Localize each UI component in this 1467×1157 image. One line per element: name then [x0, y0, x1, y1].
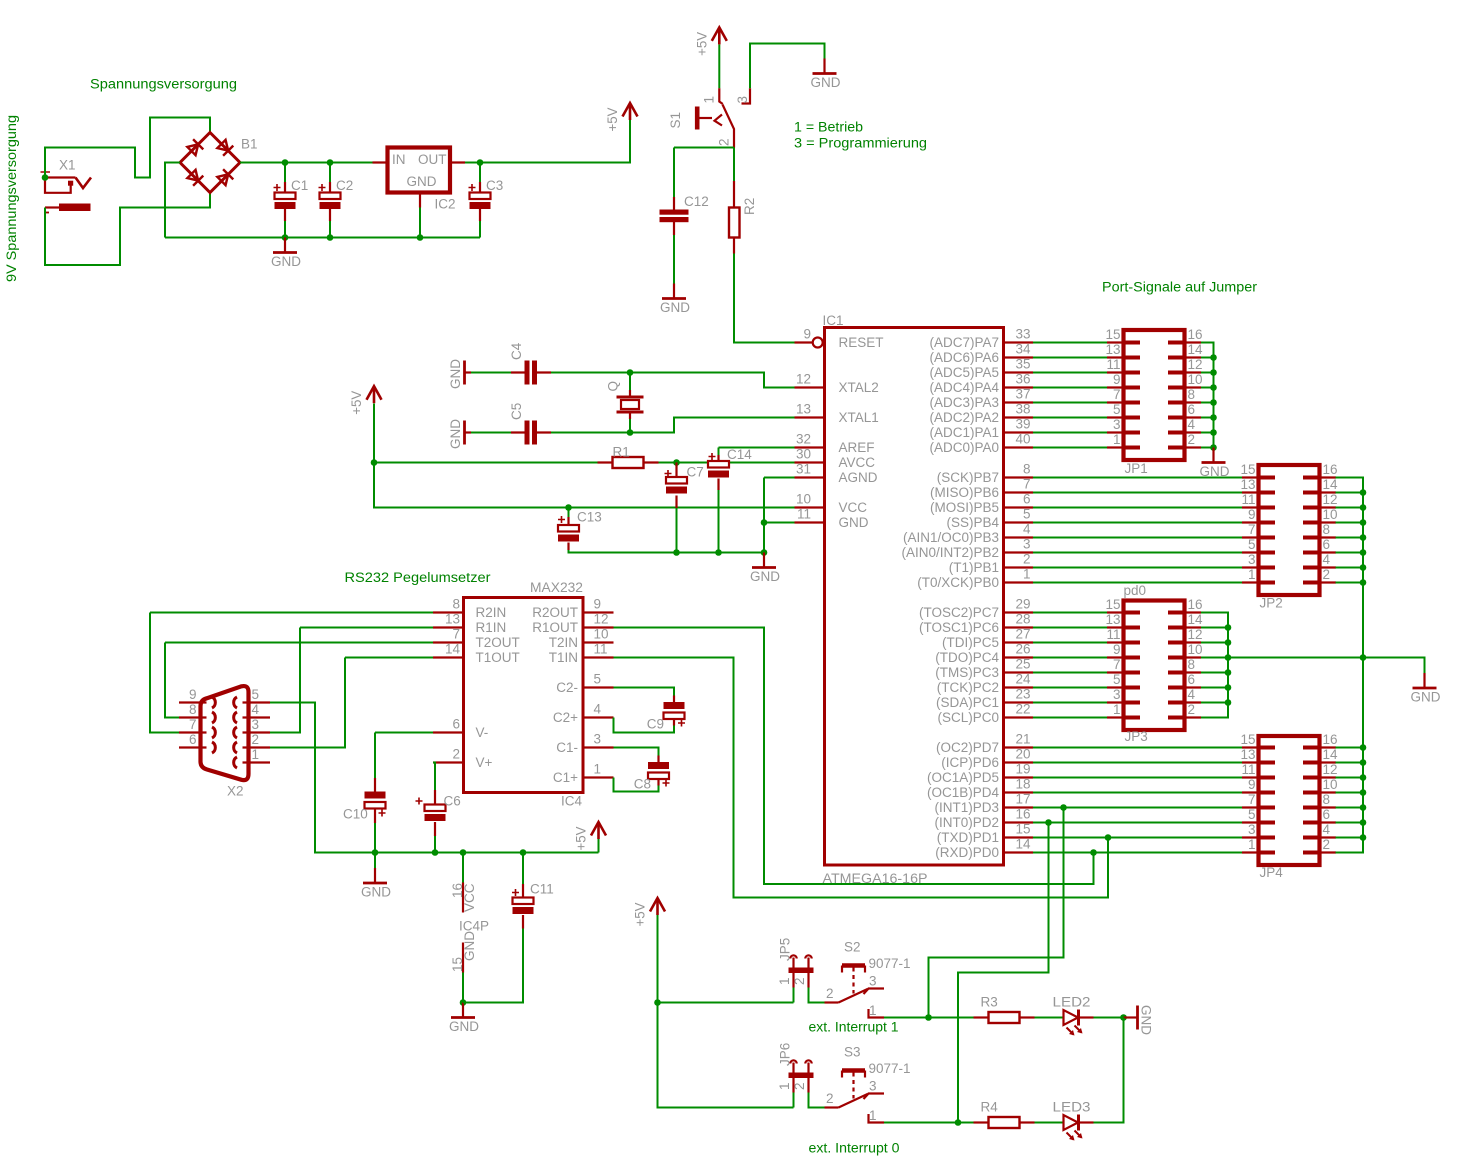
wire PD row y=852.5 to JP4 [1033, 852, 1242, 854]
wire JP3 even pin row y=672.5 [1201, 672, 1228, 674]
svg-text:15: 15 [1240, 462, 1255, 477]
svg-text:12: 12 [796, 372, 811, 387]
wire MAX232 ground/+5V bottom bus [375, 852, 599, 854]
capacitor C11 [522, 853, 524, 898]
svg-text:GND: GND [839, 515, 869, 530]
svg-text:GND: GND [407, 174, 437, 189]
wire X2 pin8 to T2OUT [165, 643, 179, 718]
svg-text:12: 12 [594, 612, 609, 627]
plus mark C9 [678, 720, 685, 727]
wire JP3 bus to GND symbol [1228, 658, 1425, 674]
svg-text:6: 6 [1023, 492, 1031, 507]
svg-text:GND: GND [449, 1019, 479, 1034]
svg-text:ext. Interrupt 1: ext. Interrupt 1 [809, 1020, 899, 1035]
svg-text:ext. Interrupt 0: ext. Interrupt 0 [809, 1141, 900, 1156]
svg-text:2: 2 [1323, 567, 1331, 582]
wire JP4 even pin row y=762.5 [1336, 762, 1364, 764]
svg-text:(ADC0)PA0: (ADC0)PA0 [929, 440, 999, 455]
IC1 pin 6 (MOSI)PB5 [1004, 506, 1034, 508]
svg-text:1: 1 [777, 977, 792, 985]
svg-text:14: 14 [445, 642, 461, 657]
junction PD0 RXD [1090, 849, 1097, 856]
svg-text:(INT1)PD3: (INT1)PD3 [934, 800, 999, 815]
svg-text:2: 2 [792, 977, 807, 985]
svg-text:6: 6 [452, 717, 460, 732]
wire JP2 even pin row y=492.5 [1336, 492, 1364, 494]
svg-text:JP4: JP4 [1260, 865, 1284, 880]
IC1 pin 15 (TXD)PD1 [1004, 836, 1034, 838]
svg-text:3: 3 [869, 974, 877, 989]
svg-text:8: 8 [189, 702, 197, 717]
svg-text:IC2: IC2 [435, 197, 456, 212]
svg-text:RESET: RESET [839, 335, 884, 350]
svg-text:5: 5 [1113, 402, 1121, 417]
wire PB row y=492.5 to JP2 [1033, 492, 1242, 494]
svg-text:7: 7 [1113, 657, 1121, 672]
wire PD row y=792.5 to JP4 [1033, 792, 1242, 794]
wire PA row y=417.5 to JP1 [1033, 417, 1107, 419]
JP2 pin 9 and pin 10 [1242, 507, 1338, 523]
junction JP1 bus y=447.5 [1210, 444, 1217, 451]
IC1 pin 4 (AIN1/OC0)PB3 [1004, 536, 1034, 538]
svg-text:8: 8 [452, 597, 460, 612]
wire R4 to LED3 [1035, 1122, 1064, 1124]
plus mark C1 [274, 184, 281, 191]
svg-text:5: 5 [594, 672, 602, 687]
IC1 pin 10 VCC [795, 506, 825, 508]
junction JP1 bus y=372.5 [1210, 369, 1217, 376]
wire PC row y=672.5 to JP3 [1033, 672, 1107, 674]
connector JP1 box [1124, 330, 1185, 460]
svg-text:T2OUT: T2OUT [476, 635, 520, 650]
svg-text:16: 16 [1323, 462, 1338, 477]
junction JP1 bus y=417.5 [1210, 414, 1217, 421]
JP1 pin 15 and pin 16 [1105, 327, 1202, 343]
svg-text:1: 1 [702, 96, 717, 104]
JP1 pin 3 and pin 4 [1107, 417, 1201, 433]
junction GND pin 11 [761, 519, 768, 526]
svg-text:15: 15 [1105, 327, 1120, 342]
svg-text:(SS)PB4: (SS)PB4 [946, 515, 999, 530]
svg-text:16: 16 [1015, 807, 1030, 822]
JP2 pin 1 and pin 2 [1242, 567, 1336, 583]
connector JP3 box [1124, 601, 1185, 731]
svg-text:1: 1 [1023, 567, 1031, 582]
ground symbol analog [763, 553, 765, 568]
svg-text:1: 1 [869, 1108, 877, 1123]
svg-text:GND: GND [448, 419, 463, 449]
junction IC2 GND on bus [417, 234, 424, 241]
JP1 pin 11 and pin 12 [1106, 357, 1202, 373]
capacitor C10 plates [365, 792, 386, 799]
IC1 pin 32 AREF [795, 446, 825, 448]
JP2 pin 5 and pin 6 [1242, 537, 1336, 553]
ground symbol rotated at C5 [448, 419, 471, 449]
svg-text:2: 2 [826, 1091, 834, 1106]
X2 pin 5 [243, 701, 271, 703]
wire bridge plus to IC2 IN [240, 162, 373, 164]
svg-text:(SDA)PC1: (SDA)PC1 [936, 695, 999, 710]
svg-text:9: 9 [594, 597, 602, 612]
wire C3 to GND bus [479, 221, 481, 238]
wire PC row y=612.5 to JP3 [1033, 612, 1107, 614]
connector JP2 box [1259, 465, 1320, 595]
svg-text:(ADC1)PA1: (ADC1)PA1 [929, 425, 999, 440]
wire X1 sleeve to bridge AC2 [45, 193, 210, 266]
wire JP2 even pin row y=522.5 [1336, 522, 1364, 524]
svg-text:9077-1: 9077-1 [869, 1061, 911, 1076]
capacitor C14 [718, 448, 720, 462]
IC1 pin 9 RESET [795, 341, 813, 343]
JP4 pin 3 and pin 4 [1242, 822, 1336, 838]
junction JP1 bus y=357.5 [1210, 354, 1217, 361]
junction C7 bottom [673, 549, 680, 556]
svg-text:2: 2 [252, 732, 260, 747]
wire JP2/JP4 even pins bus [1336, 478, 1364, 853]
connector JP4 box [1259, 736, 1320, 865]
svg-text:14: 14 [1323, 747, 1339, 762]
wire PC row y=627.5 to JP3 [1033, 627, 1107, 629]
wire C7 bottom to analog ground [676, 508, 678, 553]
wire R1 to IC1 AVCC [659, 462, 795, 464]
svg-text:25: 25 [1015, 657, 1030, 672]
svg-text:15: 15 [1015, 822, 1030, 837]
wire PA row y=432.5 to JP1 [1033, 432, 1107, 434]
svg-text:6: 6 [1323, 537, 1331, 552]
junction +5V to JP5 [654, 999, 661, 1006]
svg-text:(INT0)PD2: (INT0)PD2 [934, 815, 999, 830]
wire C10 bottom to bus [374, 823, 376, 853]
wire JP2 even pin row y=507.5 [1336, 507, 1364, 509]
svg-text:9: 9 [1113, 372, 1121, 387]
junction JP3 bus y=672.5 [1225, 669, 1232, 676]
junction C3 top [477, 159, 484, 166]
IC1 pin 21 (OC2)PD7 [1004, 746, 1034, 748]
MAX232 pin 6 V- [433, 731, 464, 733]
wire JP3 even pin row y=627.5 [1201, 627, 1228, 629]
wire JP1 even pin row y=417.5 [1201, 417, 1214, 419]
svg-text:1: 1 [777, 1082, 792, 1090]
junction C13 top on VCC row [565, 504, 572, 511]
IC1 pin 11 GND [795, 521, 825, 523]
svg-text:1: 1 [869, 1003, 877, 1018]
voltage regulator IC2 [373, 148, 466, 208]
wire R1IN row [300, 627, 433, 629]
capacitor C12 [660, 148, 689, 236]
IC1 pin 29 (TOSC2)PC7 [1004, 611, 1034, 613]
svg-text:S2: S2 [844, 940, 861, 955]
svg-text:9: 9 [803, 327, 811, 342]
capacitor C6 [433, 763, 435, 805]
JP1 pin 9 and pin 10 [1107, 372, 1203, 388]
switch S1 [697, 88, 750, 147]
wire JP1 even pin row y=372.5 [1201, 372, 1214, 374]
svg-text:+5V: +5V [694, 32, 709, 56]
wire JP1 even pins bus to GND [1201, 343, 1214, 448]
wire X1 tip to bridge AC1 [45, 118, 210, 178]
junction JP3 bus y=642.5 [1225, 639, 1232, 646]
wire JP6 pin2 to S3 [809, 1093, 825, 1108]
svg-text:(ICP)PD6: (ICP)PD6 [941, 755, 999, 770]
svg-text:3: 3 [252, 717, 260, 732]
svg-text:12: 12 [1323, 492, 1338, 507]
svg-text:(ADC5)PA5: (ADC5)PA5 [929, 365, 999, 380]
MAX232 pin 14 T1OUT [433, 656, 464, 658]
svg-text:(TCK)PC2: (TCK)PC2 [937, 680, 999, 695]
svg-text:B1: B1 [241, 137, 258, 152]
JP2 pin 15 and pin 16 [1240, 462, 1337, 478]
resistor R1 [613, 457, 644, 468]
svg-text:11: 11 [1241, 762, 1255, 777]
wire PD2 to S3 node [958, 823, 1049, 1123]
switch S2 [839, 966, 885, 1018]
wire PD3 to S2 node [929, 808, 1064, 1018]
svg-text:C14: C14 [727, 447, 752, 462]
wire analog ground bus [569, 550, 765, 553]
svg-text:GND: GND [1411, 690, 1441, 705]
capacitor C8 plates [648, 762, 669, 769]
X2 pin 3 [243, 731, 271, 733]
svg-text:C2: C2 [336, 178, 353, 193]
svg-text:5: 5 [252, 687, 260, 702]
IC1 pin 24 (TCK)PC2 [1004, 686, 1034, 688]
svg-text:(SCL)PC0: (SCL)PC0 [937, 710, 999, 725]
svg-text:IC4: IC4 [561, 794, 583, 809]
wire C4 to XTAL2 [551, 373, 795, 388]
svg-text:2: 2 [1023, 552, 1031, 567]
svg-text:(OC2)PD7: (OC2)PD7 [936, 740, 999, 755]
junction JP3 bus y=702.5 [1225, 699, 1232, 706]
junction PD2 INT0 [1045, 819, 1052, 826]
wire JP2 even pin row y=537.5 [1336, 537, 1364, 539]
IC4P power symbol pin 15 GND [450, 931, 477, 1003]
wire PD row y=777.5 to JP4 [1033, 777, 1242, 779]
wire JP6 pin1 down [793, 1093, 795, 1108]
svg-text:11: 11 [594, 642, 608, 657]
wire JP1 even pin row y=357.5 [1201, 357, 1214, 359]
svg-text:16: 16 [1188, 597, 1203, 612]
svg-text:6: 6 [1188, 402, 1196, 417]
svg-text:11: 11 [1106, 627, 1120, 642]
svg-text:C13: C13 [577, 510, 602, 525]
wire PD row y=747.5 to JP4 [1033, 747, 1242, 749]
+5V supply symbol at AVCC [367, 386, 382, 400]
wire PC row y=702.5 to JP3 [1033, 702, 1107, 704]
svg-text:GND: GND [660, 300, 690, 315]
svg-text:3: 3 [1113, 687, 1121, 702]
junction S3 R4 PD2 node [955, 1119, 962, 1126]
svg-text:GND: GND [361, 885, 391, 900]
wire PC row y=657.5 to JP3 [1033, 657, 1107, 659]
wire PB row y=477.5 to JP2 [1033, 477, 1242, 479]
svg-text:AGND: AGND [839, 470, 878, 485]
svg-text:C2+: C2+ [553, 710, 578, 725]
capacitor C1 [284, 163, 286, 222]
svg-text:32: 32 [796, 432, 811, 447]
capacitor C2 [329, 163, 331, 222]
svg-text:1: 1 [1113, 702, 1121, 717]
svg-text:(ADC4)PA4: (ADC4)PA4 [929, 380, 999, 395]
svg-text:4: 4 [1323, 552, 1331, 567]
bridge rectifier B1 [180, 133, 240, 193]
wire C1 to GND bus [284, 221, 286, 238]
svg-text:40: 40 [1015, 432, 1030, 447]
svg-text:11: 11 [797, 507, 811, 522]
junction JP4 bus y=792.5 [1360, 789, 1367, 796]
capacitor C8 [614, 748, 659, 763]
svg-text:29: 29 [1015, 597, 1030, 612]
JP1 pin 1 and pin 2 [1107, 432, 1201, 448]
svg-text:R3: R3 [981, 995, 998, 1010]
svg-text:T1OUT: T1OUT [476, 650, 520, 665]
svg-text:4: 4 [1188, 417, 1196, 432]
capacitor C9 plates [664, 702, 685, 709]
wire PB row y=537.5 to JP2 [1033, 537, 1242, 539]
junction JP1 bus y=432.5 [1210, 429, 1217, 436]
svg-text:35: 35 [1015, 357, 1030, 372]
IC1 pin 8 (SCK)PB7 [1004, 476, 1034, 478]
IC4P power symbol pin 16 VCC [450, 853, 477, 913]
X2 pin 1 [243, 761, 271, 763]
svg-text:MAX232: MAX232 [530, 580, 583, 595]
svg-text:(TDI)PC5: (TDI)PC5 [942, 635, 999, 650]
junction JP4 bus y=747.5 [1360, 744, 1367, 751]
JP3 pin 13 and pin 14 [1105, 612, 1203, 628]
svg-text:1: 1 [1113, 432, 1121, 447]
svg-text:+5V: +5V [574, 827, 589, 851]
svg-text:AVCC: AVCC [839, 455, 876, 470]
ground symbol X2/C10 [374, 868, 376, 883]
switch S3 [839, 1071, 885, 1123]
svg-text:(MISO)PB6: (MISO)PB6 [930, 485, 999, 500]
wire JP3 even pin row y=702.5 [1201, 702, 1228, 704]
svg-text:T2IN: T2IN [549, 635, 578, 650]
svg-text:7: 7 [1023, 477, 1031, 492]
wire JP4 even pin row y=747.5 [1336, 747, 1364, 749]
svg-text:R1OUT: R1OUT [532, 620, 578, 635]
svg-text:23: 23 [1015, 687, 1030, 702]
wire C14 bottom to analog ground [718, 490, 720, 553]
svg-text:7: 7 [1248, 522, 1256, 537]
plus mark C6 [416, 798, 423, 805]
svg-text:19: 19 [1015, 762, 1030, 777]
JP4 pin 15 and pin 16 [1240, 732, 1337, 748]
wire PB row y=582.5 to JP2 [1033, 582, 1242, 584]
plus mark C7 [665, 470, 672, 477]
junction AGND to ground [761, 549, 768, 556]
IC1 pin 36 (ADC4)PA4 [1004, 386, 1034, 388]
IC1 pin 25 (TMS)PC3 [1004, 671, 1034, 673]
junction C1 top [282, 159, 289, 166]
plus mark C3 [469, 184, 476, 191]
svg-text:10: 10 [1323, 777, 1338, 792]
junction JP2 bus y=492.5 [1360, 489, 1367, 496]
svg-text:RS232 Pegelumsetzer: RS232 Pegelumsetzer [345, 570, 492, 585]
wire AREF row [719, 447, 795, 449]
svg-text:GND: GND [1139, 1005, 1154, 1035]
svg-text:(SCK)PB7: (SCK)PB7 [937, 470, 999, 485]
MAX232 pin 3 C1- [583, 746, 614, 748]
junction PD1 TXD [1105, 834, 1112, 841]
IC1 pin 38 (ADC2)PA2 [1004, 416, 1034, 418]
svg-text:C1-: C1- [556, 740, 578, 755]
svg-text:4: 4 [252, 702, 260, 717]
junction JP4 bus y=837.5 [1360, 834, 1367, 841]
junction C7 top [673, 459, 680, 466]
svg-text:GND: GND [750, 569, 780, 584]
IC1 pin 39 (ADC1)PA1 [1004, 431, 1034, 433]
svg-text:16: 16 [1323, 732, 1338, 747]
svg-text:C5: C5 [509, 403, 524, 420]
capacitor C3 plates [470, 193, 491, 200]
IC1 pin 12 XTAL2 [795, 386, 825, 388]
switch S2 pin2 lead [825, 1001, 839, 1003]
wire V- row [375, 732, 433, 734]
svg-text:C12: C12 [684, 194, 709, 209]
ground symbol rotated at C4 [448, 359, 471, 389]
X2 pin 8 [179, 716, 207, 718]
svg-text:10: 10 [1188, 642, 1203, 657]
svg-text:10: 10 [1188, 372, 1203, 387]
svg-text:5: 5 [1113, 672, 1121, 687]
svg-text:pd0: pd0 [1124, 583, 1147, 598]
svg-text:8: 8 [1323, 792, 1331, 807]
wire T2OUT row [165, 642, 433, 644]
JP1 pin 13 and pin 14 [1105, 342, 1203, 358]
svg-text:GND: GND [811, 75, 841, 90]
JP3 pin 9 and pin 10 [1107, 642, 1203, 658]
svg-text:3: 3 [594, 732, 602, 747]
wire JP3 even pins bus [1201, 613, 1228, 718]
svg-text:8: 8 [1023, 462, 1031, 477]
wire C5 to XTAL1 [551, 418, 795, 433]
svg-text:7: 7 [1113, 387, 1121, 402]
svg-text:1: 1 [1248, 837, 1256, 852]
capacitor C6 plates [425, 805, 446, 812]
wire +5V to R1 [374, 462, 598, 464]
svg-text:(ADC2)PA2: (ADC2)PA2 [929, 410, 999, 425]
JP4 pin 9 and pin 10 [1242, 777, 1338, 793]
svg-text:30: 30 [796, 447, 811, 462]
wire S1 pin2 to R2 [733, 148, 735, 182]
svg-text:6: 6 [189, 732, 197, 747]
svg-text:3: 3 [1023, 537, 1031, 552]
svg-text:5: 5 [1023, 507, 1031, 522]
junction C1 bottom [282, 234, 289, 241]
svg-text:4: 4 [1023, 522, 1031, 537]
svg-text:9: 9 [1113, 642, 1121, 657]
svg-text:+5V: +5V [349, 391, 364, 415]
wire GND bus power section [165, 237, 480, 239]
svg-text:9V Spannungsversorgung: 9V Spannungsversorgung [4, 115, 19, 282]
svg-text:14: 14 [1188, 342, 1204, 357]
wire PC row y=717.5 to JP3 [1033, 717, 1107, 719]
MAX232 pin 11 T1IN [583, 656, 614, 658]
svg-text:C7: C7 [687, 465, 704, 480]
MAX232 pin 7 T2OUT [433, 641, 464, 643]
capacitor C7 [675, 463, 677, 478]
wire JP1 even pin row y=432.5 [1201, 432, 1214, 434]
svg-text:+5V: +5V [605, 108, 620, 132]
svg-text:C11: C11 [530, 882, 554, 897]
ground symbol S1 pin3 [823, 59, 825, 74]
IC1 pin 16 (INT0)PD2 [1004, 821, 1034, 823]
svg-text:26: 26 [1015, 642, 1030, 657]
capacitor C4 [471, 361, 551, 385]
IC1 pin 17 (INT1)PD3 [1004, 806, 1034, 808]
capacitor C9 [614, 688, 675, 703]
wire JP5 pin2 to S2 [809, 988, 825, 1003]
